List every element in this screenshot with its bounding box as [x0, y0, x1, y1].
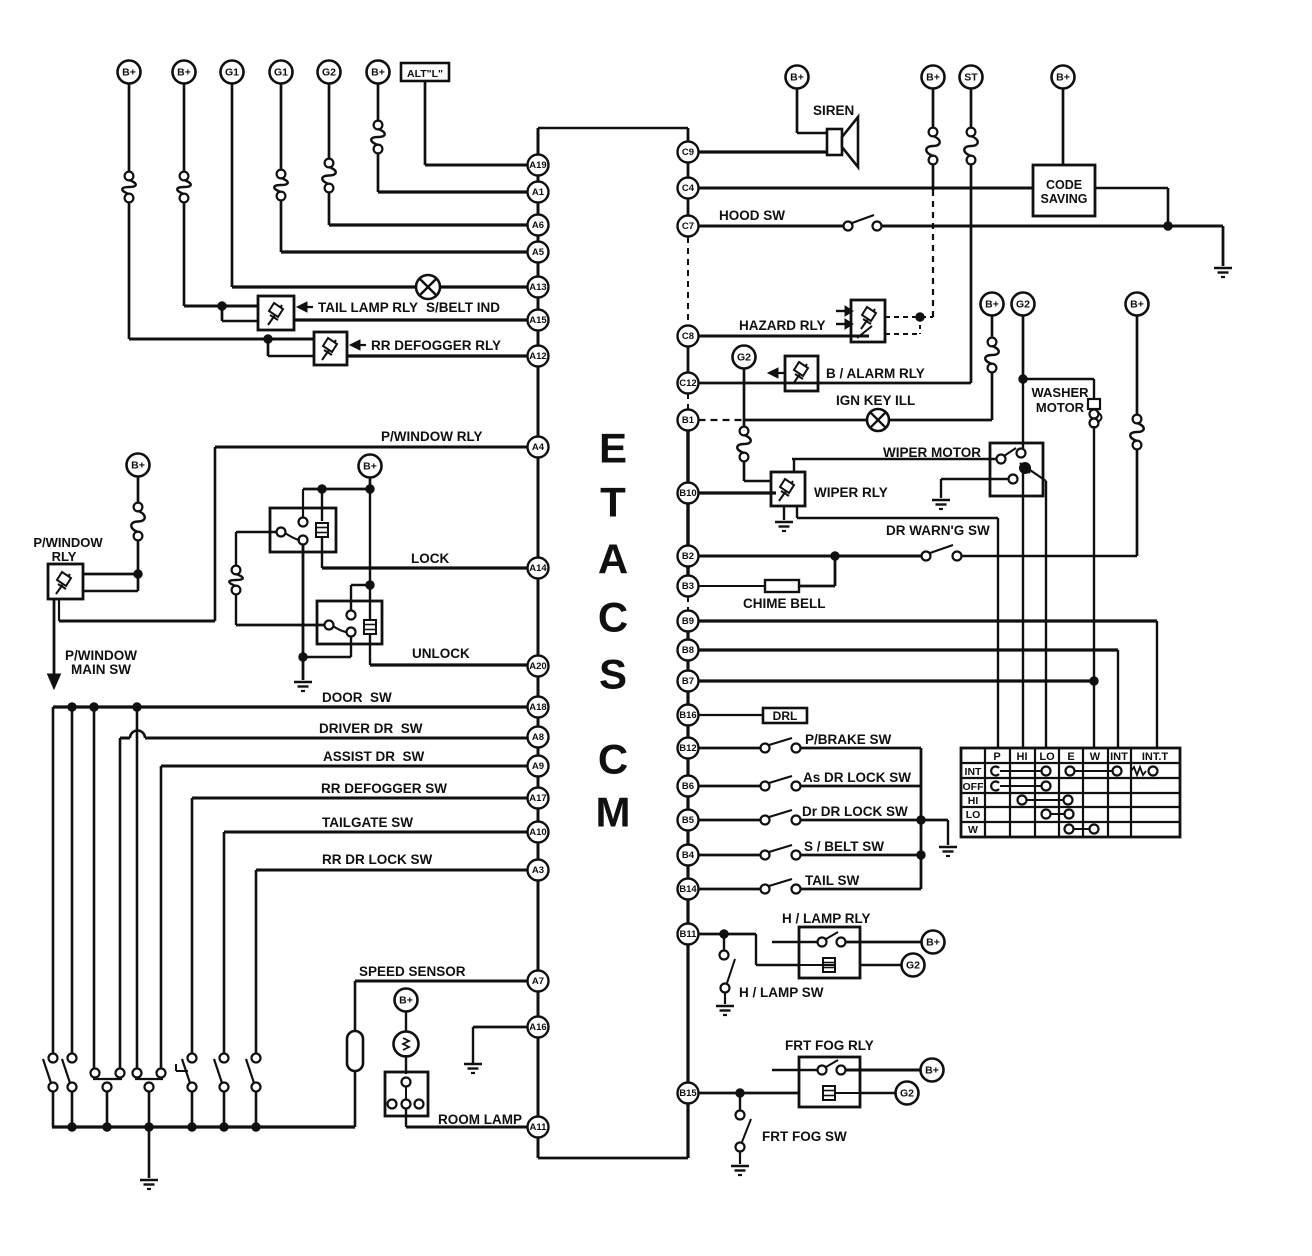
svg-text:SIREN: SIREN	[813, 103, 854, 118]
svg-text:UNLOCK: UNLOCK	[412, 646, 470, 661]
svg-text:B2: B2	[682, 551, 694, 562]
svg-text:B+: B+	[177, 67, 191, 79]
svg-text:B+: B+	[371, 67, 385, 79]
svg-text:MOTOR: MOTOR	[1036, 400, 1085, 415]
svg-text:A17: A17	[529, 793, 546, 804]
svg-text:SPEED SENSOR: SPEED SENSOR	[359, 964, 466, 979]
svg-text:WIPER RLY: WIPER RLY	[814, 485, 888, 500]
svg-text:INT: INT	[965, 766, 983, 778]
svg-text:G2: G2	[737, 352, 751, 364]
svg-text:OFF: OFF	[963, 781, 985, 793]
svg-text:INT: INT	[1110, 751, 1128, 763]
svg-text:A8: A8	[532, 732, 544, 743]
svg-text:LO: LO	[1039, 751, 1055, 763]
svg-text:S/BELT IND: S/BELT IND	[426, 300, 500, 315]
svg-text:FRT FOG RLY: FRT FOG RLY	[785, 1038, 874, 1053]
svg-text:P/WINDOW: P/WINDOW	[65, 648, 137, 663]
svg-text:C7: C7	[682, 221, 694, 232]
svg-text:P/BRAKE SW: P/BRAKE SW	[805, 732, 892, 747]
svg-text:A19: A19	[529, 160, 546, 171]
svg-text:B+: B+	[1130, 299, 1144, 311]
svg-text:G2: G2	[906, 960, 920, 972]
svg-text:E: E	[1067, 751, 1074, 763]
svg-text:G1: G1	[274, 67, 288, 79]
svg-text:A14: A14	[529, 563, 547, 574]
svg-text:RR DEFOGGER RLY: RR DEFOGGER RLY	[371, 338, 501, 353]
svg-text:B3: B3	[682, 581, 694, 592]
svg-text:P/WINDOW RLY: P/WINDOW RLY	[381, 429, 483, 444]
svg-text:HAZARD RLY: HAZARD RLY	[739, 318, 826, 333]
svg-text:H / LAMP RLY: H / LAMP RLY	[782, 911, 871, 926]
svg-text:DRIVER DR SW: DRIVER DR SW	[319, 721, 423, 736]
svg-text:B16: B16	[679, 710, 696, 721]
svg-text:S: S	[599, 651, 627, 698]
svg-text:A9: A9	[532, 761, 544, 772]
svg-text:A12: A12	[529, 351, 546, 362]
svg-text:B+: B+	[926, 72, 940, 84]
svg-text:HI: HI	[1017, 751, 1028, 763]
svg-text:RR DR LOCK SW: RR DR LOCK SW	[322, 852, 432, 867]
svg-text:HI: HI	[968, 795, 979, 807]
svg-text:B8: B8	[682, 645, 694, 656]
svg-text:ROOM LAMP: ROOM LAMP	[438, 1112, 522, 1127]
svg-text:B5: B5	[682, 815, 695, 826]
svg-text:HOOD SW: HOOD SW	[719, 208, 785, 223]
svg-text:RR DEFOGGER SW: RR DEFOGGER SW	[321, 781, 447, 796]
svg-text:M: M	[596, 789, 631, 836]
svg-text:B+: B+	[790, 72, 804, 84]
svg-text:P/WINDOW: P/WINDOW	[33, 535, 103, 550]
svg-text:W: W	[968, 824, 978, 836]
svg-text:A6: A6	[532, 220, 544, 231]
svg-text:B / ALARM RLY: B / ALARM RLY	[826, 366, 925, 381]
svg-text:B+: B+	[925, 1065, 939, 1077]
svg-text:RLY: RLY	[52, 549, 77, 564]
svg-text:B7: B7	[682, 676, 694, 687]
svg-text:B6: B6	[682, 781, 694, 792]
svg-text:C: C	[598, 594, 628, 641]
svg-text:G2: G2	[900, 1088, 914, 1100]
svg-text:LOCK: LOCK	[411, 551, 449, 566]
svg-text:B14: B14	[679, 884, 697, 895]
svg-text:LO: LO	[966, 809, 981, 821]
svg-text:B4: B4	[682, 850, 695, 861]
svg-text:A16: A16	[529, 1022, 546, 1033]
svg-text:B+: B+	[926, 937, 940, 949]
svg-text:A5: A5	[532, 247, 545, 258]
svg-text:B10: B10	[679, 488, 696, 499]
svg-text:As DR LOCK SW: As DR LOCK SW	[803, 770, 911, 785]
svg-text:IGN KEY ILL: IGN KEY ILL	[836, 393, 915, 408]
svg-text:DOOR SW: DOOR SW	[322, 690, 392, 705]
svg-text:E: E	[599, 425, 627, 472]
svg-text:C8: C8	[682, 331, 694, 342]
svg-text:T: T	[600, 479, 626, 526]
svg-text:B9: B9	[682, 616, 694, 627]
svg-text:SAVING: SAVING	[1041, 192, 1088, 206]
svg-text:A11: A11	[530, 1122, 548, 1133]
svg-text:TAIL SW: TAIL SW	[805, 873, 860, 888]
svg-text:A10: A10	[529, 827, 546, 838]
svg-text:A18: A18	[529, 702, 546, 713]
svg-text:A20: A20	[529, 661, 546, 672]
svg-text:WASHER: WASHER	[1031, 385, 1089, 400]
svg-text:A7: A7	[532, 976, 544, 987]
svg-text:B15: B15	[679, 1088, 697, 1099]
svg-text:ASSIST DR SW: ASSIST DR SW	[323, 749, 425, 764]
svg-text:B12: B12	[679, 743, 696, 754]
svg-text:A4: A4	[532, 442, 545, 453]
svg-text:G2: G2	[322, 67, 336, 79]
svg-text:B1: B1	[682, 415, 695, 426]
svg-text:C: C	[598, 736, 628, 783]
svg-text:FRT FOG SW: FRT FOG SW	[762, 1129, 847, 1144]
svg-text:G1: G1	[225, 67, 239, 79]
svg-text:S / BELT SW: S / BELT SW	[804, 839, 884, 854]
svg-text:TAIL LAMP RLY: TAIL LAMP RLY	[318, 300, 418, 315]
svg-text:B+: B+	[1056, 72, 1070, 84]
svg-text:CODE: CODE	[1046, 178, 1082, 192]
svg-text:B+: B+	[363, 461, 377, 473]
svg-text:ST: ST	[964, 72, 978, 84]
svg-text:TAILGATE SW: TAILGATE SW	[322, 815, 413, 830]
svg-text:P: P	[993, 751, 1000, 763]
svg-text:C12: C12	[679, 378, 696, 389]
svg-text:B+: B+	[122, 67, 136, 79]
svg-text:INT.T: INT.T	[1142, 751, 1169, 763]
svg-text:B+: B+	[131, 460, 145, 472]
svg-text:MAIN SW: MAIN SW	[71, 662, 131, 677]
svg-text:DRL: DRL	[773, 709, 798, 723]
svg-text:A: A	[598, 536, 628, 583]
svg-text:A3: A3	[532, 865, 544, 876]
svg-text:DR WARN'G SW: DR WARN'G SW	[886, 523, 990, 538]
svg-text:C4: C4	[682, 183, 695, 194]
svg-text:A13: A13	[529, 282, 546, 293]
svg-text:Dr DR LOCK SW: Dr DR LOCK SW	[802, 804, 908, 819]
svg-text:B11: B11	[680, 929, 698, 940]
svg-text:W: W	[1090, 751, 1101, 763]
svg-text:B+: B+	[985, 299, 999, 311]
svg-text:CHIME BELL: CHIME BELL	[743, 596, 826, 611]
svg-text:B+: B+	[399, 995, 413, 1007]
svg-text:ALT"L": ALT"L"	[407, 68, 443, 80]
svg-text:A1: A1	[532, 187, 545, 198]
svg-text:G2: G2	[1016, 299, 1030, 311]
svg-text:C9: C9	[682, 147, 694, 158]
svg-text:A15: A15	[529, 315, 547, 326]
svg-text:H / LAMP SW: H / LAMP SW	[739, 985, 824, 1000]
